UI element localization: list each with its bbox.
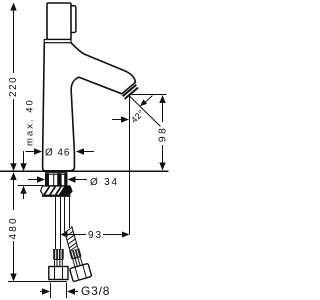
right supply hose angled part bbox=[58, 224, 91, 281]
svg-text:Ø 34: Ø 34 bbox=[90, 177, 119, 188]
42 degree spray line bbox=[130, 96, 161, 127]
G3/8 left arrow bbox=[40, 288, 50, 294]
98 extension line bbox=[129, 94, 167, 96]
dimension max40 arrow above deck bbox=[20, 151, 26, 171]
left supply hose bbox=[56, 197, 61, 249]
right supply hose vertical part bbox=[65, 197, 70, 230]
svg-text:220: 220 bbox=[8, 76, 19, 97]
svg-text:G3/8: G3/8 bbox=[81, 284, 110, 298]
svg-text:480: 480 bbox=[8, 216, 19, 239]
handle rim band bbox=[44, 40, 71, 43]
dimension Ø34 left arrow bbox=[28, 176, 45, 182]
left hose crimp sleeve bbox=[53, 249, 64, 260]
countertop bottom line bbox=[18, 185, 44, 187]
threaded shank bbox=[46, 173, 68, 186]
dimension Ø34 right arrow bbox=[68, 176, 88, 182]
handle bbox=[47, 3, 71, 40]
dimension 220 line lower bbox=[10, 99, 16, 171]
crimp sleeve bbox=[69, 248, 81, 259]
svg-text:93: 93 bbox=[88, 230, 103, 241]
spout outlet reference vertical line bbox=[129, 96, 131, 235]
faucet body and spout bbox=[43, 43, 136, 171]
handle protrusion (select button) bbox=[68, 6, 76, 33]
svg-text:98: 98 bbox=[157, 126, 169, 142]
thread bbox=[73, 257, 83, 267]
hex nut bbox=[70, 263, 92, 281]
dimension 480 lower bbox=[10, 241, 16, 282]
G3/8 right arrow bbox=[67, 288, 78, 294]
aerator at spout tip bbox=[123, 85, 138, 99]
dimension 93 bbox=[60, 232, 130, 238]
G3/8 extension line left bbox=[50, 283, 52, 298]
dimension Ø46 right arrow bbox=[76, 148, 94, 154]
dimension 98 upper bbox=[159, 95, 165, 122]
countertop deck line bbox=[0, 170, 169, 172]
dimension 480 upper bbox=[10, 172, 16, 210]
svg-text:Ø 46: Ø 46 bbox=[45, 148, 70, 159]
hose end extension line bbox=[8, 281, 67, 283]
G3/8 extension line right bbox=[66, 283, 68, 298]
dimension max40 arrow below deck bbox=[20, 186, 26, 199]
dimension 220 line upper bbox=[10, 3, 16, 74]
left hose thread bbox=[55, 260, 63, 267]
svg-text:max. 40: max. 40 bbox=[25, 98, 36, 146]
dimension Ø46 left arrow bbox=[26, 148, 43, 154]
braided section bbox=[64, 226, 79, 251]
42 degree arrow at vertical line bbox=[112, 116, 129, 122]
42 degree arrow at spray line bbox=[140, 96, 153, 107]
left hose hex nut bbox=[49, 267, 68, 280]
mounting nut bbox=[41, 186, 73, 196]
dimension 98 lower bbox=[159, 145, 165, 171]
